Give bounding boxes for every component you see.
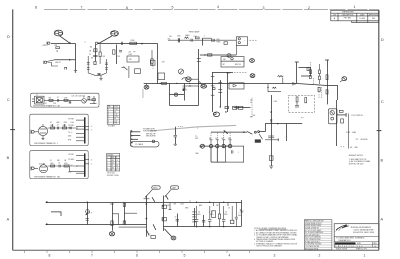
terminal strip bar preamp2 xyxy=(84,153,86,176)
svg-text:→ 5: → 5 xyxy=(89,164,92,166)
svg-text:TREB: TREB xyxy=(216,42,220,44)
speaker jack J4 xyxy=(228,144,231,147)
svg-text:40: 40 xyxy=(211,211,213,213)
svg-text:C21 .047 600V DISC: C21 .047 600V DISC xyxy=(305,234,320,236)
svg-text:FOOT SWITCH: FOOT SWITCH xyxy=(352,115,364,117)
transistor arrow on y107.5 xyxy=(236,106,239,109)
svg-text:INSTRUMENT PREAMP NO. 2 A7: INSTRUMENT PREAMP NO. 2 A7 xyxy=(34,175,60,178)
svg-text:8: 8 xyxy=(35,5,37,9)
cap cluster a xyxy=(177,214,179,227)
text block near connector xyxy=(143,128,157,138)
lamp DS2 xyxy=(250,74,255,78)
resistor column x219.5 xyxy=(219,202,221,214)
resistor R102 xyxy=(64,99,68,101)
svg-text:FIRST AMP: FIRST AMP xyxy=(189,31,200,34)
T-bars above jacks xyxy=(210,139,213,141)
+V T mark xyxy=(295,61,299,63)
pot arrow xyxy=(86,211,89,214)
vertical x348.8 xyxy=(348,114,350,149)
bracket below jack2 xyxy=(48,63,59,67)
preamp2 wire xyxy=(48,165,79,167)
resistor marks xyxy=(270,119,272,122)
tube V2B dark xyxy=(201,85,207,89)
vertical x184.1 xyxy=(184,84,186,101)
svg-text:T1: T1 xyxy=(36,95,38,97)
tone row value labels xyxy=(169,34,205,38)
capacitor C7 xyxy=(212,39,214,42)
svg-text:450V: 450V xyxy=(197,214,201,216)
svg-text:450V: 450V xyxy=(238,215,242,217)
svg-text:68K: 68K xyxy=(55,45,58,47)
svg-text:T2: T2 xyxy=(189,201,191,203)
svg-text:1: 1 xyxy=(354,5,356,9)
bottom wire xyxy=(211,161,226,163)
wire y86 xyxy=(183,85,199,87)
heater wire bottom xyxy=(46,224,147,226)
droppers xyxy=(212,202,214,206)
svg-text:→ 2: → 2 xyxy=(89,130,92,132)
arrow mark xyxy=(224,131,228,134)
boxes on x163 xyxy=(162,205,166,208)
box: instrument preamp no.1 outline xyxy=(30,114,88,145)
dark code bar xyxy=(335,242,356,244)
transistor Q2 body xyxy=(186,77,191,82)
svg-text:7: 7 xyxy=(91,253,93,257)
cap Rv3 xyxy=(295,104,299,106)
box Rf2 xyxy=(341,119,344,123)
lamp DS1 xyxy=(250,59,255,63)
svg-text:PF: PF xyxy=(134,51,136,53)
node junction J-A xyxy=(69,42,71,44)
svg-text:3: 3 xyxy=(263,6,265,10)
filter cap 4 box xyxy=(231,220,234,224)
svg-text:6: 6 xyxy=(136,253,138,257)
bracket xyxy=(203,38,212,42)
svg-text:VOLT: VOLT xyxy=(114,106,118,108)
cap cluster b xyxy=(203,215,205,227)
resistor Rv2 xyxy=(305,98,307,103)
svg-text:SOCKET CONN: SOCKET CONN xyxy=(107,175,120,177)
mic transformer T1 xyxy=(35,96,45,104)
vertical x175.3 with cap xyxy=(175,127,177,135)
fuse box F1 xyxy=(151,236,156,239)
jack input 1 xyxy=(48,42,50,44)
resistor R4 xyxy=(99,52,101,57)
pot VOL1 xyxy=(178,69,183,74)
svg-text:FULLERTON, CALIF. 92634: FULLERTON, CALIF. 92634 xyxy=(353,231,374,234)
left zone letters xyxy=(7,35,10,222)
switch arm S2 xyxy=(247,131,252,134)
gray pencil wire xyxy=(150,125,236,131)
resistor R3 xyxy=(130,42,137,44)
svg-text:VOL: VOL xyxy=(168,39,171,41)
wire y107.5 xyxy=(234,107,251,109)
vertical x227.4 xyxy=(227,72,229,112)
pot column x87 xyxy=(87,203,89,225)
svg-text:S1 SW DPST ROCKER: S1 SW DPST ROCKER xyxy=(305,244,322,246)
resistor R105 xyxy=(51,165,55,167)
pot MID xyxy=(227,54,231,58)
sub loop horizontal y94.6 xyxy=(169,94,184,96)
jack drop wires xyxy=(210,148,212,162)
svg-text:→ 6: → 6 xyxy=(89,159,92,161)
box cap C3 xyxy=(127,56,139,62)
switch diagonals xyxy=(152,197,155,202)
svg-text:2: 2 xyxy=(319,254,321,258)
box: instrument preamp no.2 outline xyxy=(30,151,88,179)
svg-text:20: 20 xyxy=(240,212,242,214)
svg-text:.02: .02 xyxy=(50,122,52,124)
svg-text:450V: 450V xyxy=(210,214,214,216)
right border tick xyxy=(377,130,382,132)
junction below wire xyxy=(267,87,268,88)
bottom border line xyxy=(13,249,379,251)
svg-text:7: 7 xyxy=(81,6,83,10)
sub loop below: vertical x169.3 xyxy=(169,84,171,106)
bottom zone numbers xyxy=(49,253,366,257)
right zone letters xyxy=(381,38,385,222)
svg-text:1: 1 xyxy=(364,254,366,258)
capacitor C5 xyxy=(177,38,179,42)
svg-text:100K: 100K xyxy=(50,163,54,165)
svg-text:APPROVED: APPROVED xyxy=(369,13,379,16)
svg-text:10-6-81: 10-6-81 xyxy=(359,18,365,20)
svg-text:470: 470 xyxy=(129,51,132,53)
left border ticks xyxy=(10,129,15,131)
node dot xyxy=(141,43,143,45)
ground symbol xyxy=(269,165,273,167)
dash column x310.7 xyxy=(310,62,312,67)
svg-text:D: D xyxy=(381,38,384,42)
capacitor in panel xyxy=(230,150,232,153)
wire vertical x95-100 xyxy=(99,44,101,52)
bracket below xyxy=(268,87,281,91)
pot circle channel xyxy=(86,210,90,214)
svg-text:2.2K: 2.2K xyxy=(53,103,56,105)
svg-text:68K: 68K xyxy=(49,98,52,100)
vertical x286.5 xyxy=(286,124,288,142)
vertical through x336.6 xyxy=(336,100,338,146)
pi part xyxy=(64,66,67,68)
logo script Fender xyxy=(336,225,349,230)
footswitch labels xyxy=(346,115,370,165)
svg-text:.1: .1 xyxy=(238,152,239,154)
tick top column xyxy=(144,198,150,200)
texts row xyxy=(216,39,220,44)
wire to T xyxy=(337,114,347,116)
svg-text:REVISIONS: REVISIONS xyxy=(342,12,354,14)
converge to ground xyxy=(88,73,101,75)
svg-text:40: 40 xyxy=(225,211,227,213)
svg-text:20: 20 xyxy=(175,217,177,219)
resistor R103 xyxy=(51,127,55,129)
bottom zone ticks xyxy=(25,250,250,253)
horizontal y72 xyxy=(213,72,234,74)
dashes right of connector xyxy=(250,39,257,41)
dashed drops from wire xyxy=(211,133,230,139)
svg-text:1500: 1500 xyxy=(71,122,75,124)
svg-text:470K: 470K xyxy=(63,125,67,127)
right border line xyxy=(378,10,380,250)
wire stub xyxy=(128,66,130,78)
loop lines near x112 xyxy=(113,214,119,225)
wire second row xyxy=(99,43,158,45)
svg-text:2: 2 xyxy=(85,41,86,43)
switch S-bright xyxy=(124,67,128,71)
svg-text:25: 25 xyxy=(250,102,252,104)
box: microphone preamp outline xyxy=(31,93,99,107)
second row wire xyxy=(200,54,236,56)
dashed shield x153 xyxy=(152,60,154,70)
wire tube V1 to node xyxy=(60,36,70,43)
svg-text:FOR REVERB UNIT: FOR REVERB UNIT xyxy=(143,131,157,133)
relay box K1 lower xyxy=(221,61,244,67)
resistor R7 xyxy=(196,37,200,39)
pot circle below xyxy=(215,112,217,114)
svg-text:WHT/BLK TIP: WHT/BLK TIP xyxy=(146,134,155,136)
svg-text:TO PIN 7: TO PIN 7 xyxy=(68,119,74,121)
filter cap 1 xyxy=(196,206,198,219)
T bars x212.6 xyxy=(211,76,215,78)
wire vertical x116 xyxy=(116,45,118,65)
svg-text:TO +V: TO +V xyxy=(68,165,72,167)
resistor R2 xyxy=(94,61,96,64)
svg-text:3: 3 xyxy=(274,254,276,258)
svg-text:TO PIN 7: TO PIN 7 xyxy=(68,154,74,156)
ground dot xyxy=(174,143,177,145)
circle on loop xyxy=(152,140,155,143)
svg-text:.02: .02 xyxy=(50,160,52,162)
resistor R8 xyxy=(208,54,212,56)
svg-text:2: 2 xyxy=(197,128,198,130)
power strip value labels xyxy=(167,205,230,210)
input jack J2 xyxy=(31,167,34,170)
wire mic preamp xyxy=(44,99,81,101)
label tag CAP xyxy=(171,186,179,189)
pilot lamp xyxy=(109,232,114,236)
long vertical bus x157 xyxy=(157,43,159,83)
wire corner to bus xyxy=(170,105,199,107)
svg-text:2: 2 xyxy=(308,6,310,10)
speaker jack J3 xyxy=(222,144,225,147)
svg-text:470K: 470K xyxy=(64,122,68,124)
svg-text:68K: 68K xyxy=(57,160,60,162)
jack labels xyxy=(209,138,231,140)
cable loop xyxy=(131,141,159,147)
svg-text:0: 0 xyxy=(112,170,113,172)
svg-text:TO +V: TO +V xyxy=(68,132,72,134)
box small x212 xyxy=(212,211,216,218)
connector P1 body xyxy=(130,131,132,146)
svg-text:34K: 34K xyxy=(90,46,93,48)
svg-text:INSTRUMENT PREAMP NO. 1: INSTRUMENT PREAMP NO. 1 xyxy=(34,142,58,145)
cap + labels xyxy=(196,212,239,215)
wire to mixer circle xyxy=(260,131,266,133)
resistor R5 xyxy=(151,59,153,63)
capacitor C4 box xyxy=(135,69,141,74)
capacitor C101 xyxy=(57,99,59,102)
resistor squiggle Rp2 xyxy=(278,75,284,77)
junction xyxy=(225,111,226,112)
svg-text:013295 XFMR POWER: 013295 XFMR POWER xyxy=(305,225,322,227)
svg-text:SHEET 1 OF 1: SHEET 1 OF 1 xyxy=(356,249,367,251)
svg-text:GRN: GRN xyxy=(185,208,188,210)
svg-text:12AX7: 12AX7 xyxy=(226,71,231,74)
svg-text:250K: 250K xyxy=(216,39,220,41)
svg-text:SOCKET: SOCKET xyxy=(107,154,113,156)
svg-text:100K 22: 100K 22 xyxy=(55,62,61,64)
svg-text:→ 3: → 3 xyxy=(89,126,92,128)
wire tube V2 to node xyxy=(99,36,112,43)
transistor arrows at wire xyxy=(293,82,296,85)
main wire y83.4 xyxy=(144,83,297,85)
capacitor C103 xyxy=(57,127,59,130)
heater wire top xyxy=(46,202,242,204)
svg-text:16: 16 xyxy=(185,90,187,92)
resistor R9 xyxy=(225,106,229,108)
wire input row 1 xyxy=(51,43,76,45)
small dark rect xyxy=(183,89,185,91)
svg-text:.022: .022 xyxy=(129,59,132,61)
grid stopper parts xyxy=(95,42,97,44)
svg-text:6: 6 xyxy=(126,6,128,10)
speaker jack J2 xyxy=(216,144,219,147)
svg-text:.02: .02 xyxy=(58,162,60,164)
svg-text:INT: INT xyxy=(223,64,226,66)
bias column x327 xyxy=(327,60,329,105)
svg-text:C: C xyxy=(381,100,384,104)
tube V1 envelope xyxy=(54,30,63,36)
relay coil box xyxy=(255,140,261,143)
filter cap 3 xyxy=(223,206,225,219)
svg-text:.1: .1 xyxy=(204,36,205,38)
svg-text:TO GRID: TO GRID xyxy=(68,159,75,161)
svg-text:100K: 100K xyxy=(50,125,54,127)
terminal labels preamp2 xyxy=(39,154,75,174)
dashed vertical x252 xyxy=(251,98,253,118)
title block frame xyxy=(334,224,379,248)
mic preamp right parts xyxy=(86,99,93,101)
diagonal to lamp xyxy=(164,229,171,237)
connector box with pins xyxy=(236,37,247,46)
svg-text:C: C xyxy=(7,98,10,102)
svg-text:GRD: GRD xyxy=(153,188,158,190)
top border line (light dashed scan) xyxy=(44,9,379,11)
svg-text:47: 47 xyxy=(242,211,244,213)
footswitch box xyxy=(328,109,337,124)
bracket loop xyxy=(299,67,311,76)
svg-text:PRO REL: PRO REL xyxy=(344,18,351,20)
speaker jack J1 xyxy=(209,144,212,147)
cap bars x220 xyxy=(218,89,222,91)
lamp tube pilot xyxy=(144,85,149,89)
svg-text:CR1-4 1N4004 DIODE: CR1-4 1N4004 DIODE xyxy=(305,239,321,241)
main speaker jack w/slash xyxy=(200,144,204,148)
svg-text:CAP: CAP xyxy=(172,187,177,190)
cap column x236 xyxy=(235,202,237,217)
tube V2 envelope xyxy=(111,31,119,36)
jack input 2 xyxy=(44,61,46,63)
stubs jacks xyxy=(210,140,212,145)
filter cap 2 xyxy=(209,206,211,219)
resistor R101 xyxy=(49,99,53,101)
vertical bus x220 xyxy=(220,80,222,108)
svg-text:250: 250 xyxy=(250,99,253,101)
wire y131.5 xyxy=(211,131,247,133)
pin wires xyxy=(133,131,141,133)
top zone numbers xyxy=(35,5,356,10)
lamp column x112 xyxy=(112,203,114,231)
svg-text:0264210-000: 0264210-000 xyxy=(340,246,364,248)
box resistor on bus xyxy=(150,60,155,65)
svg-text:1.5K: 1.5K xyxy=(117,56,120,58)
wire lower preamp2 xyxy=(69,170,84,172)
connector box stub xyxy=(235,46,237,56)
stub bracket xyxy=(51,212,61,216)
right corner drop xyxy=(241,200,243,227)
vertical bus x212.6 xyxy=(212,72,214,112)
value labels row mic preamp xyxy=(36,95,85,105)
component cluster right xyxy=(233,106,237,109)
tube V3 twin circles xyxy=(214,112,220,117)
dropper x170 xyxy=(169,202,171,209)
svg-text:.047: .047 xyxy=(169,36,172,38)
svg-text:4: 4 xyxy=(229,254,231,258)
ground input vertical xyxy=(74,70,77,72)
svg-text:VIB: VIB xyxy=(223,59,225,61)
resistor R1 xyxy=(56,47,60,49)
svg-text:F1: F1 xyxy=(148,234,150,236)
row wire xyxy=(168,39,236,41)
svg-text:450V: 450V xyxy=(224,214,228,216)
terminal labels preamp1 xyxy=(50,119,74,142)
svg-text:50K: 50K xyxy=(253,115,256,117)
node dot xyxy=(57,50,58,51)
svg-text:D: D xyxy=(7,35,10,39)
terminal pin wires preamp1 xyxy=(76,119,84,121)
table: tube socket voltages xyxy=(107,105,120,124)
svg-text:VOLUME: VOLUME xyxy=(39,163,45,165)
cathode cap branch right xyxy=(105,59,107,73)
dashes xyxy=(341,146,345,148)
svg-text:WITH HI-Z VM 120V: WITH HI-Z VM 120V xyxy=(349,164,365,166)
svg-text:INPUT: INPUT xyxy=(43,45,49,47)
svg-text:8: 8 xyxy=(49,253,51,257)
svg-text:250K: 250K xyxy=(177,36,181,38)
svg-text:V: V xyxy=(116,157,117,159)
small parts left of x327 column xyxy=(307,68,309,71)
dashed enclosure xyxy=(288,95,314,112)
cap bars xyxy=(268,135,274,137)
cap bars x183 xyxy=(183,87,186,89)
resistor squiggle below xyxy=(272,87,276,88)
wire y139.8 right xyxy=(265,139,279,141)
box small xyxy=(224,42,227,45)
wire vertical x95.6 xyxy=(95,44,97,61)
svg-text:Q1: Q1 xyxy=(83,97,85,99)
svg-text:B: B xyxy=(7,156,10,160)
svg-text:470: 470 xyxy=(167,205,170,207)
cathode parts V2 xyxy=(113,50,115,54)
svg-text:SCALE: NONE: SCALE: NONE xyxy=(336,248,348,251)
svg-text:80: 80 xyxy=(198,211,200,213)
power column x163.3 xyxy=(163,196,165,232)
resistor Rf1 xyxy=(339,110,343,112)
svg-text:A: A xyxy=(7,218,10,222)
arrows right of preamp1 bar xyxy=(89,126,92,131)
svg-text:1.5K: 1.5K xyxy=(102,56,105,58)
vertical stub x202.5 xyxy=(202,38,204,46)
